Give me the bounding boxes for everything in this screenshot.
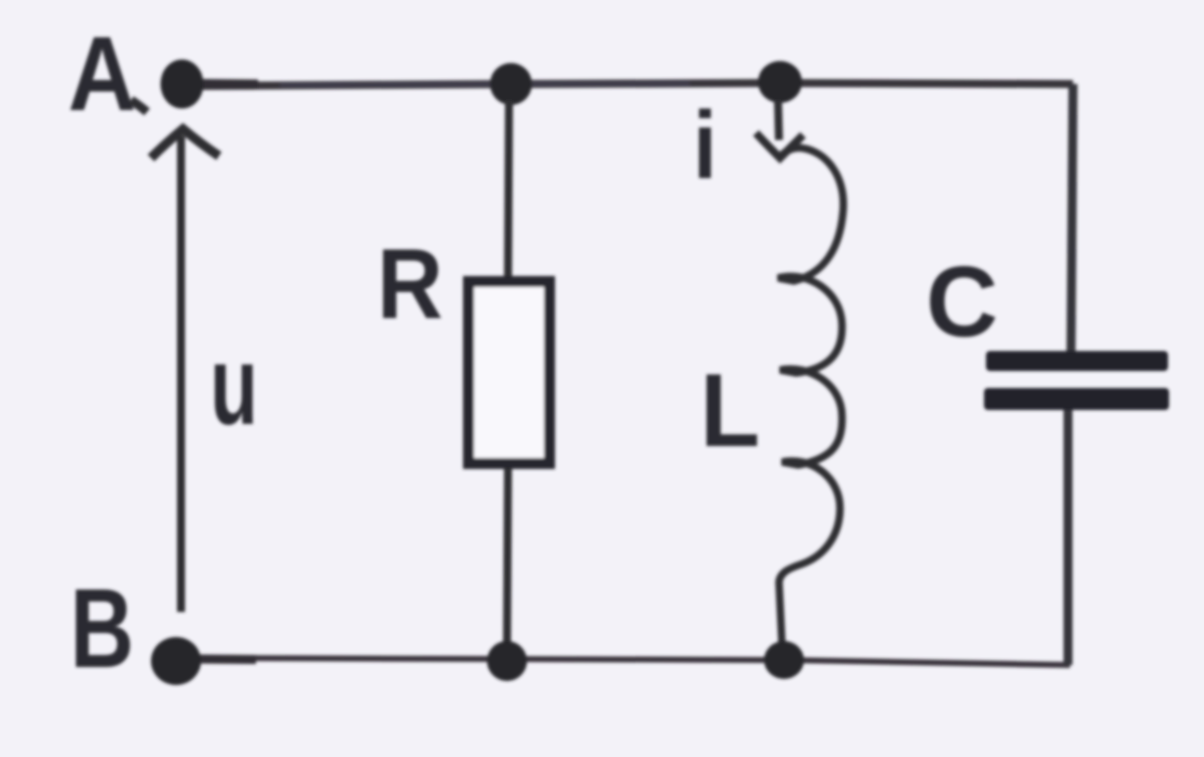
current arrow i head <box>756 133 803 158</box>
svg-text:R: R <box>377 228 443 339</box>
arrow u (voltage) shaft <box>177 136 185 612</box>
svg-text:L: L <box>700 353 760 469</box>
junction dot L top <box>758 61 802 103</box>
wire R top lead <box>508 100 509 280</box>
resistor R body <box>469 282 550 464</box>
svg-text:u: u <box>210 323 258 448</box>
arrow u head <box>151 129 219 158</box>
svg-text:C: C <box>926 246 998 358</box>
wire taper at node A <box>203 79 258 90</box>
svg-text:B: B <box>70 566 134 691</box>
capacitor C bottom plate <box>984 388 1169 410</box>
junction dot L bottom <box>764 641 804 679</box>
svg-text:A: A <box>68 15 136 133</box>
wire C top lead <box>1071 84 1073 352</box>
wire C bottom lead <box>1064 410 1073 665</box>
wire top bluish tint segment <box>280 84 690 86</box>
wire taper at node B <box>198 655 256 665</box>
capacitor C top plate <box>986 351 1168 371</box>
wire R bottom lead <box>507 468 508 646</box>
node A <box>161 60 204 109</box>
junction dot R bottom <box>487 641 527 681</box>
A foot tick <box>131 100 147 112</box>
wire bottom (B to C corner) <box>195 658 1070 665</box>
wire top (A to C corner) <box>190 83 1073 86</box>
node B <box>151 637 201 685</box>
svg-text:i: i <box>693 92 717 199</box>
junction dot R top <box>490 63 532 105</box>
current arrow i shaft <box>778 100 779 140</box>
inductor L coil <box>778 148 843 645</box>
